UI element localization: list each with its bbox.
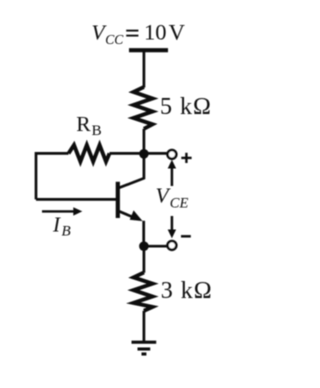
wire emitter node to - terminal (144, 245, 167, 248)
label equals sign (126, 31, 138, 36)
arrow down (VCE -) (168, 216, 176, 238)
power rail VCC (129, 48, 168, 52)
svg-text:B: B (62, 224, 71, 240)
svg-text:CE: CE (170, 196, 189, 212)
resistor RB (69, 145, 110, 162)
ground (132, 342, 157, 354)
label - sign (181, 235, 191, 238)
label + sign (181, 153, 191, 163)
svg-text:B: B (92, 123, 102, 139)
svg-text:10: 10 (144, 20, 167, 45)
node collector junction (139, 149, 149, 159)
svg-text:V: V (169, 20, 185, 45)
svg-text:5 kΩ: 5 kΩ (160, 94, 212, 120)
resistor 5k (collector) (134, 87, 153, 129)
label IB (52, 213, 71, 240)
label VCC = 10 V (92, 20, 185, 47)
wire base: loop bottom into base (36, 198, 116, 201)
wire 3k resistor to ground (143, 311, 146, 342)
wire 5k resistor to collector node (143, 129, 146, 155)
terminal + (open circle) (168, 150, 177, 159)
wire emitter node to 3k resistor (143, 246, 146, 273)
svg-text:3 kΩ: 3 kΩ (161, 278, 213, 304)
svg-text:I: I (52, 213, 61, 237)
svg-text:R: R (76, 112, 91, 136)
arrow up (VCE +) (168, 160, 176, 186)
transistor Q1 emitter lead with arrow (118, 211, 138, 219)
resistor 3k (emitter) (134, 273, 153, 311)
wire RB to collector node and on to + terminal (110, 152, 167, 155)
svg-text:CC: CC (105, 32, 124, 47)
wire VCC rail to 5k resistor (143, 50, 146, 87)
arrow IB (42, 207, 82, 215)
transistor Q1 collector lead (118, 154, 144, 188)
terminal - (open circle) (168, 241, 177, 250)
node emitter junction (139, 241, 149, 251)
transistor Q1 base bar (116, 182, 120, 218)
label VCE (156, 184, 189, 212)
label RB (76, 112, 101, 139)
wire top row: left corner to RB (36, 153, 69, 199)
